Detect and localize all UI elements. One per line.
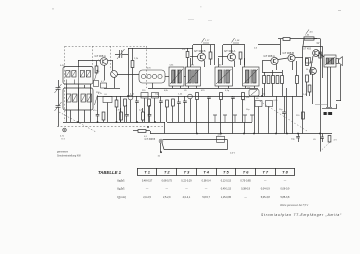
wire IF bottom rail — [148, 88, 258, 90]
svg-text:5,05-3,8: 5,05-3,8 — [261, 196, 271, 199]
IF filter block outline — [139, 70, 165, 83]
wire Tr1-Tr2 link — [184, 76, 186, 78]
junction dot bus2 x298 — [297, 133, 299, 135]
wire bypass row rail — [167, 122, 252, 124]
output frame right — [322, 46, 324, 78]
wire R14 up — [264, 72, 266, 76]
svg-text:1,15-0,95: 1,15-0,95 — [221, 196, 232, 199]
svg-text:T 6: T 6 — [243, 169, 249, 174]
capacitor C29 — [282, 112, 286, 113]
wire T3 base — [218, 56, 228, 58]
transistor T8 — [310, 68, 317, 75]
junction dot bus1 x137 — [136, 121, 138, 123]
svg-text:Stromlaufplan 7T-Empfänger „Am: Stromlaufplan 7T-Empfänger „Amita“ — [261, 213, 342, 217]
svg-text:T 4: T 4 — [203, 169, 209, 174]
wire trim b down — [190, 99, 192, 122]
wire L2 top — [84, 85, 86, 88]
capacitor C30 — [296, 137, 300, 138]
junction dot bus2 x276 — [275, 133, 277, 135]
shield frame right dashed — [146, 46, 148, 88]
svg-text:UE[V]: UE[V] — [117, 187, 125, 192]
scan speck — [52, 8, 54, 11]
wire long vert 320 — [320, 45, 322, 134]
resistor R16 — [272, 76, 275, 84]
svg-text:0,38-0,4: 0,38-0,4 — [202, 180, 212, 183]
wire L1 top feed — [78, 60, 80, 67]
junction dot bus2 x221 — [220, 133, 222, 135]
svg-text:T 1: T 1 — [144, 169, 150, 174]
table column line 5 — [216, 168, 218, 176]
svg-text:GT 308 B: GT 308 B — [145, 138, 156, 141]
connector X1 — [63, 128, 67, 132]
wire R43 up — [142, 108, 144, 112]
connector X2 — [159, 139, 163, 143]
wire to T1 base — [78, 60, 98, 62]
svg-text:UB[V]: UB[V] — [117, 179, 125, 184]
coil L2 winding a — [67, 94, 72, 102]
output frame left — [302, 46, 304, 78]
resistor R7 — [209, 52, 212, 59]
wire band drop — [164, 122, 166, 134]
wire X2 stub — [160, 143, 162, 152]
wire R28 down — [166, 107, 168, 122]
wire output mid link — [310, 67, 312, 75]
wire L2 leg a — [70, 110, 72, 122]
wire feedback bottom — [164, 149, 228, 151]
svg-text:T 8: T 8 — [282, 169, 288, 174]
resistor R2 — [95, 66, 98, 73]
wire osc feedback vert — [128, 48, 130, 96]
wire R26 left — [133, 130, 138, 132]
wire speaker hook — [336, 100, 341, 102]
transistor T7 — [313, 50, 320, 57]
svg-text:LD: LD — [313, 139, 316, 141]
resistor R34 — [319, 52, 321, 58]
wire R7 up — [210, 45, 212, 52]
svg-text:T 5: T 5 — [223, 169, 229, 174]
test point mark T7 — [306, 30, 309, 34]
coil L1 winding b slash — [72, 71, 75, 76]
wire Tr3 leg b — [228, 86, 230, 88]
coil core arrow L1 — [95, 70, 98, 80]
table column line 6 — [235, 168, 237, 176]
svg-text:GT 403: GT 403 — [303, 48, 312, 51]
volume potentiometer P1 — [249, 90, 259, 97]
bus bottom main — [150, 133, 332, 135]
resistor R13 — [283, 38, 290, 41]
trimmer capacitor C5 — [117, 49, 125, 59]
wire R30 right — [314, 38, 320, 40]
junction dot bus1 x155 — [154, 121, 156, 123]
svg-text:2,0-2,5: 2,0-2,5 — [143, 196, 151, 199]
table column line 8 — [275, 168, 277, 176]
wire mixer feed — [112, 61, 114, 71]
wire osc trim down — [130, 100, 132, 122]
junction dot bus1 x116.5 — [116, 121, 118, 123]
bypass capacitor stub 5 — [250, 115, 254, 122]
transistor T4 — [271, 57, 278, 64]
wire C24 up — [208, 96, 210, 97]
wire C25 down — [232, 98, 234, 133]
wire C31 up — [322, 134, 324, 138]
wire feed drop — [280, 39, 282, 55]
wire T2 collector up — [201, 45, 203, 53]
wire T2 base — [190, 56, 198, 58]
resistor R19 — [296, 76, 299, 84]
T3 shield box left — [222, 45, 224, 65]
wire mid rail — [97, 96, 303, 98]
wire R21 down — [124, 106, 126, 122]
resistor R15 — [267, 76, 270, 84]
wire R24 down — [196, 100, 198, 134]
coil L2 divider — [78, 88, 80, 110]
wire T2 emitter down — [204, 61, 206, 68]
wire Tr4 leg a — [245, 86, 247, 88]
resistor R26 — [138, 130, 146, 133]
wire C23 up — [184, 96, 186, 101]
wire K3 down — [154, 98, 156, 122]
wire R43 down — [142, 120, 144, 122]
wire R19 up — [296, 61, 298, 76]
earphone jack Bu1 — [324, 112, 333, 115]
wire T4 base — [262, 60, 271, 62]
wire detector node — [262, 61, 264, 72]
svg-text:4,7k: 4,7k — [218, 135, 222, 137]
IF transformer Tr1 — [169, 67, 184, 86]
wire out drop b — [312, 75, 314, 105]
speaker LS — [336, 57, 343, 66]
resistor R20 — [115, 100, 118, 107]
tuning gang coupling dashed — [59, 112, 96, 132]
wire C22 down — [160, 102, 162, 122]
bypass capacitor stub 2 — [223, 115, 227, 122]
svg-text:5,6k: 5,6k — [170, 65, 174, 67]
resistor R18 — [281, 76, 284, 84]
wire Tr6 leg b — [330, 67, 332, 107]
wire R26 to bus — [150, 131, 152, 134]
wire top rail segment — [128, 48, 193, 50]
resistor R35 — [328, 136, 331, 143]
wire mixer stub — [114, 77, 116, 88]
wire T1 base lead — [98, 60, 100, 61]
filter element c — [152, 74, 156, 78]
wire T1 collector — [108, 60, 113, 62]
wire C21 down — [136, 102, 138, 122]
wire C28 down — [178, 103, 180, 122]
wire jack cap — [326, 107, 332, 109]
coil L1 divider — [78, 67, 80, 85]
junction dot mid rail a — [127, 95, 129, 97]
wire AF vert b — [276, 96, 278, 134]
svg-text:47n: 47n — [93, 110, 96, 112]
wire C42 up — [126, 105, 128, 115]
wire R22 down — [148, 106, 150, 122]
capacitor C43 — [148, 115, 152, 116]
coil L1 bottom tap b — [74, 80, 76, 85]
svg-text:1,2k: 1,2k — [246, 97, 250, 99]
svg-text:0,4 V: 0,4 V — [230, 153, 236, 155]
filter element b — [147, 74, 151, 78]
tuning capacitor C1b — [55, 102, 62, 111]
shield partition dashed — [92, 46, 94, 67]
filter element a — [141, 74, 145, 78]
small box K3 — [152, 93, 159, 99]
wire L1 leg c — [90, 84, 92, 122]
svg-text:4 V: 4 V — [334, 140, 338, 142]
output transformer Tr6 — [324, 55, 336, 67]
junction dot bus2 x197 — [196, 133, 198, 135]
wire Tr4 leg b — [254, 86, 256, 88]
table column line 3 — [176, 168, 178, 176]
svg-text:0,04-0,9: 0,04-0,9 — [261, 188, 271, 191]
small box M1 — [94, 81, 99, 87]
resistor R32 — [306, 75, 309, 82]
bypass capacitor stub 4 — [243, 115, 247, 122]
capacitor C28 — [177, 102, 181, 103]
svg-text:0,12-0,15: 0,12-0,15 — [221, 180, 232, 183]
coil L2 winding a slash — [67, 95, 71, 102]
wire C31 down — [322, 138, 324, 142]
wire C29 down — [284, 113, 286, 133]
svg-text:27k: 27k — [182, 49, 185, 51]
svg-text:5,85-3,8: 5,85-3,8 — [280, 196, 290, 199]
resistor R11 — [239, 52, 242, 59]
wire R42 down — [120, 120, 122, 122]
svg-text:1,2k: 1,2k — [139, 110, 143, 112]
filter element d — [158, 74, 162, 78]
scan speck — [338, 9, 341, 12]
resistor R25 — [220, 93, 223, 100]
T2 shield box top — [193, 44, 215, 46]
wire filter out — [165, 76, 169, 78]
wire 9V feed — [320, 39, 322, 46]
trim circle b — [188, 94, 193, 99]
wire Tr4 top link — [244, 58, 246, 67]
wire C41 up — [97, 96, 99, 115]
junction dot A — [243, 133, 245, 135]
coil L1 winding a slash — [66, 71, 69, 76]
resistor R31 — [306, 59, 309, 66]
wire mixer link — [104, 88, 120, 90]
wire feed drop2 — [258, 44, 280, 46]
capacitor C25 — [231, 97, 235, 98]
capacitor C24 — [207, 97, 211, 98]
oscillator coil box L2 — [63, 88, 93, 110]
small box LD2 — [255, 101, 262, 107]
wire R30 left drop — [303, 39, 304, 47]
coil L2 winding d — [87, 94, 92, 102]
capacitor C22 — [159, 101, 163, 102]
wire trimmer to node — [122, 54, 128, 56]
coil L1 winding a — [66, 71, 70, 78]
resistor R3 — [131, 61, 134, 68]
resistor R6 — [186, 52, 189, 58]
resistor R43 — [142, 112, 145, 120]
scan speck c — [188, 18, 194, 21]
wire crossing gray — [315, 104, 327, 106]
antenna coil box L1 — [63, 67, 93, 85]
transistor T1 — [100, 58, 108, 66]
transistor T3 — [228, 53, 236, 61]
resistor R42 — [120, 112, 123, 120]
IF transformer Tr4 — [243, 67, 260, 86]
output frame top — [303, 46, 322, 48]
junction dot C — [319, 133, 321, 135]
resistor R27 box — [217, 136, 225, 142]
wire feedback right — [227, 140, 229, 150]
junction dot E — [160, 151, 162, 153]
small box M2 — [101, 83, 107, 88]
wire L2 leg b — [84, 110, 86, 122]
bypass capacitor stub 1 — [213, 115, 217, 122]
coupling box LD1 — [103, 97, 112, 103]
wire R23 down — [172, 106, 174, 122]
wire T1 down — [104, 65, 106, 80]
wire Tr2 leg b — [196, 86, 198, 88]
svg-text:10k: 10k — [247, 88, 250, 90]
wire T5 collector right — [295, 57, 303, 59]
table column line 2 — [156, 168, 158, 176]
svg-text:GT 309 A: GT 309 A — [224, 49, 236, 53]
wire R26 right — [146, 130, 150, 132]
wire R6 up — [187, 48, 189, 52]
wire LD1 down — [107, 103, 109, 123]
wire R18 up — [282, 70, 284, 76]
resistor R14 — [263, 76, 266, 84]
resistor R24 — [196, 93, 199, 100]
svg-text:GT 309 B: GT 309 B — [194, 49, 206, 53]
resistor R22 — [148, 99, 151, 106]
wire C25 up — [232, 96, 234, 97]
svg-text:Werte gemessen bei 7,5 V: Werte gemessen bei 7,5 V — [280, 204, 309, 207]
T3 shield box top — [223, 44, 245, 46]
wire filter bottom stub — [152, 83, 154, 88]
svg-text:4,0-4,1: 4,0-4,1 — [183, 196, 191, 199]
wire T3 collector up — [231, 45, 233, 53]
wire K2 down — [144, 98, 146, 122]
resistor R33 — [308, 85, 311, 92]
wire R18 down — [282, 84, 284, 97]
capacitor C41 — [96, 115, 100, 116]
wire jack up — [336, 104, 338, 109]
svg-text:0,1: 0,1 — [101, 81, 104, 83]
svg-text:gemessen: gemessen — [57, 150, 69, 153]
svg-text:0,22-0,29: 0,22-0,29 — [181, 180, 192, 183]
wire LD3 down — [268, 107, 270, 134]
wire trimmer left lead — [115, 54, 120, 56]
wire Tr6 leg a — [327, 67, 329, 107]
svg-text:0,06-0,9: 0,06-0,9 — [280, 188, 290, 191]
coil L1 winding c slash — [81, 71, 84, 76]
resistor R41 — [102, 112, 105, 120]
svg-text:9V: 9V — [317, 43, 320, 45]
svg-text:0,49-1,15: 0,49-1,15 — [221, 188, 232, 191]
shield frame left dashed — [64, 46, 66, 121]
wire feedback join — [162, 143, 164, 150]
small box LD3 — [266, 101, 273, 107]
wire Tr2-T2 base — [190, 58, 192, 67]
wire R44 down — [242, 100, 244, 123]
resistor R28 — [166, 100, 169, 107]
svg-text:0,38-0,9: 0,38-0,9 — [241, 188, 251, 191]
wire R3 top — [132, 48, 134, 61]
table top border — [137, 168, 295, 170]
wire R6 down — [187, 58, 189, 68]
wire P1 down — [254, 96, 256, 134]
wire R20 down — [116, 107, 118, 122]
wire R42 up — [120, 108, 122, 112]
wire C28 up — [178, 96, 180, 102]
coil L2 winding d slash — [88, 95, 92, 102]
wire Tr2 leg a — [188, 86, 190, 88]
junction dot bus2 x254 — [253, 133, 255, 135]
coil L2 winding b slash — [73, 95, 77, 102]
wire C30 down — [298, 138, 300, 142]
wire C24 down — [208, 98, 210, 133]
transistor T2 — [198, 53, 206, 61]
scan speck d — [208, 19, 212, 22]
shield frame top dashed — [65, 46, 147, 48]
capacitor C31 — [320, 137, 324, 138]
wire mid rail drop — [120, 96, 122, 122]
wire R13 left — [278, 38, 283, 40]
transistor T5 — [288, 54, 295, 61]
IF transformer Tr2 — [186, 67, 201, 86]
resistor R21 — [124, 99, 127, 106]
wire R41 down — [103, 120, 105, 122]
capacitor C42 — [125, 115, 129, 116]
small box K2 — [141, 93, 148, 99]
wire feedback top — [163, 139, 228, 141]
resistor R29 — [302, 112, 305, 119]
test point mark T2 — [202, 38, 210, 43]
wire C30 up — [298, 134, 300, 137]
svg-text:0,68-0,75: 0,68-0,75 — [162, 180, 173, 183]
coil L2 winding c — [81, 94, 86, 102]
wire C41 down — [97, 116, 99, 122]
svg-text:4,7k: 4,7k — [116, 110, 120, 112]
wire output frame bottom drop — [302, 78, 304, 134]
coil L2 winding c slash — [82, 95, 86, 102]
bus negative rail left — [63, 122, 165, 124]
resistor R44 — [242, 93, 245, 100]
junction dot bus1 x97.5 — [97, 121, 99, 123]
wire out drop a — [306, 82, 308, 96]
svg-text:2,5-2,9: 2,5-2,9 — [163, 196, 171, 199]
osc trim circle — [128, 95, 133, 100]
T2 shield box left — [192, 45, 194, 65]
switch S1b dashed — [320, 143, 330, 152]
svg-text:Sendereinstellung KW: Sendereinstellung KW — [57, 154, 81, 157]
tuning capacitor C1a — [55, 84, 62, 93]
wire antenna left lower — [58, 89, 60, 105]
wire feed from R13 — [290, 38, 317, 40]
wire LD2 down — [258, 107, 260, 134]
driver bias box — [306, 58, 311, 64]
wire AF rail — [262, 72, 282, 74]
wire R7 down — [210, 59, 212, 65]
wire mixer out to filter — [117, 74, 139, 76]
wire AF vert c — [292, 96, 294, 134]
table column line 9 — [294, 168, 296, 176]
coil L1 bottom tap — [66, 80, 68, 85]
wire Tr3 top link — [218, 58, 220, 67]
wire R2 up — [96, 61, 98, 66]
wire R20 up — [116, 96, 118, 100]
svg-text:6-30: 6-30 — [60, 65, 65, 67]
table column line 1 — [137, 168, 139, 176]
wire C42 down — [126, 116, 128, 122]
